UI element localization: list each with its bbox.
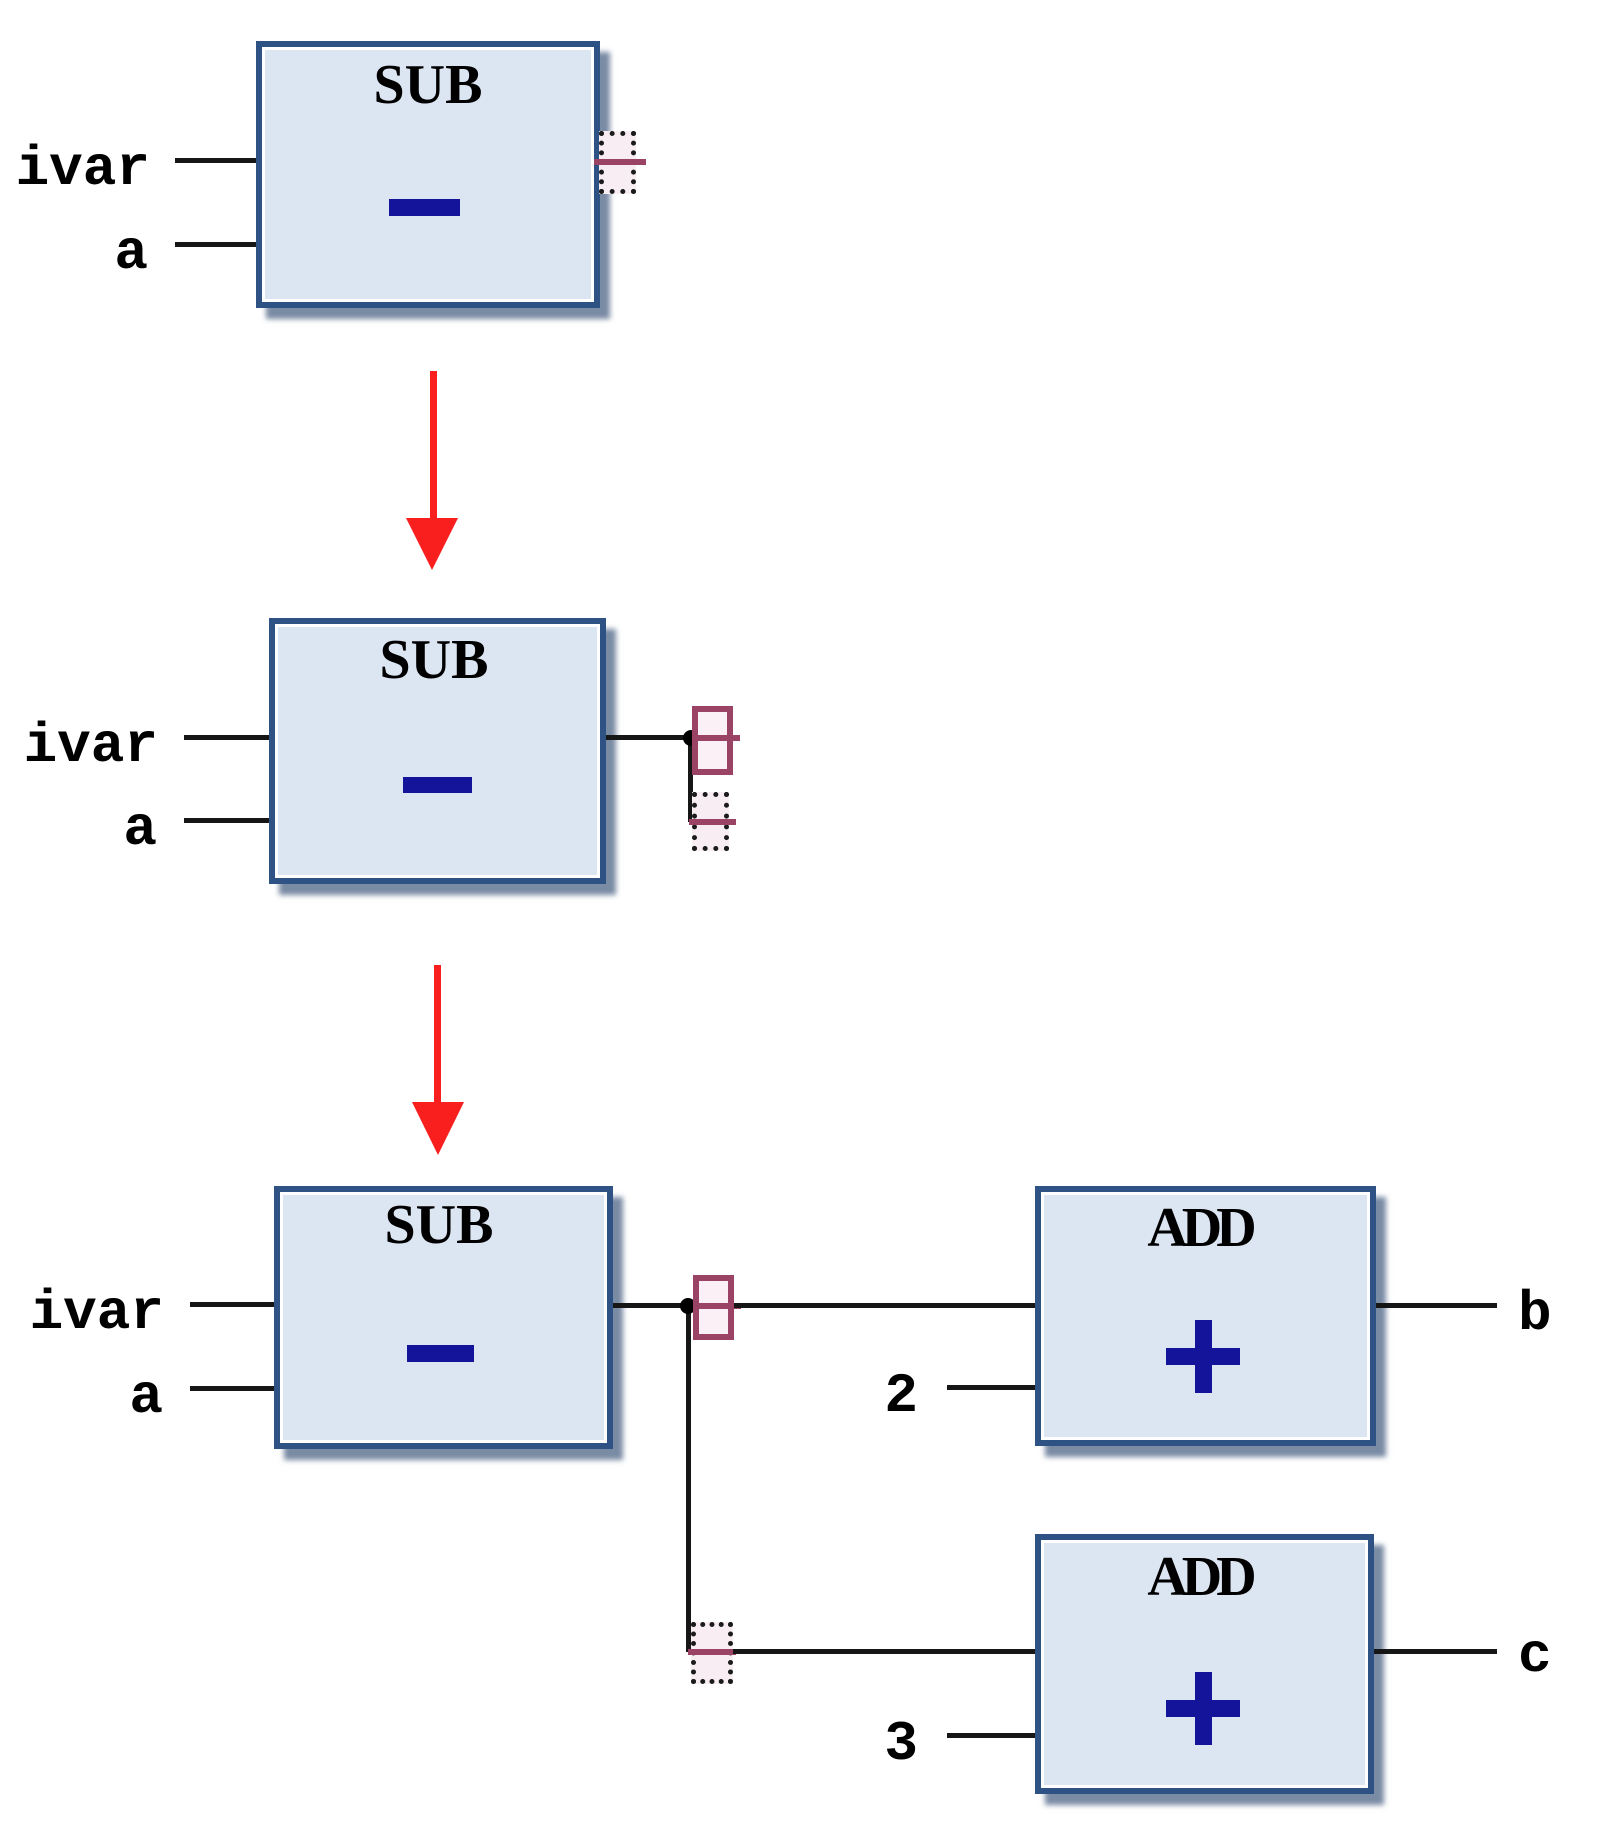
wire ADD2 output to c [1374,1649,1497,1654]
wire ADD1 output to b [1376,1303,1497,1308]
label c (ADD2 output) [1518,1628,1552,1684]
function block ADD2 [1035,1534,1374,1794]
red arrow 1 head [406,518,458,570]
minus operator SUB2 [403,777,472,793]
plus operator ADD1 vertical [1195,1320,1212,1393]
wire SUB2 output vertical branch [688,738,693,822]
assignment marker SUB3 (solid) [693,1275,734,1340]
wire 3 to ADD2 [947,1733,1035,1738]
divider line solid marker SUB3 [693,1303,741,1309]
title SUB1 [328,57,528,113]
next connection marker SUB2 (dashed) [692,792,729,851]
function block SUB1 [256,41,600,308]
wire a to SUB2 [184,818,269,823]
red arrow 2 shaft [434,965,441,1102]
label 2 (ADD1 input 2) [768,1368,918,1424]
plus operator ADD1 horizontal [1166,1348,1240,1365]
plus operator ADD2 horizontal [1166,1700,1240,1717]
label ivar (SUB3 input 1) [0,1285,164,1341]
function block SUB3 [274,1186,613,1449]
plus operator ADD2 vertical [1195,1672,1212,1745]
output connection marker SUB1 (dashed) [599,131,636,194]
junction node SUB3 output [680,1298,696,1314]
function block ADD1 [1035,1186,1376,1446]
label a (SUB1 input 2) [0,225,148,281]
divider line dashed marker SUB2 [689,819,736,825]
divider line solid marker SUB2 [692,735,740,741]
wire ivar to SUB1 [175,158,258,163]
title SUB3 [339,1197,539,1253]
branch connection marker SUB3 (dashed) [691,1622,733,1684]
label b (ADD1 output) [1518,1286,1552,1342]
assignment marker SUB2 (solid) [692,706,733,775]
junction node SUB2 output [683,730,699,746]
label a (SUB3 input 2) [0,1369,163,1425]
minus operator SUB1 [389,199,460,216]
wire SUB3 output [613,1303,688,1308]
minus operator SUB3 [407,1345,474,1362]
label ivar (SUB2 input 1) [0,718,158,774]
red arrow 1 shaft [430,371,437,519]
wire 2 to ADD1 [947,1385,1035,1390]
title SUB2 [334,632,534,688]
divider line dashed marker SUB3 [688,1649,736,1655]
wire SUB3 output vertical branch [686,1306,691,1652]
wire ivar to SUB2 [184,735,269,740]
label a (SUB2 input 2) [0,801,157,857]
wire a to SUB3 [190,1386,274,1391]
wire ivar to SUB3 [190,1302,274,1307]
label ivar (SUB1 input 1) [0,141,150,197]
output stub line SUB1 [594,159,646,165]
wire a to SUB1 [175,242,258,247]
wire SUB2 output [606,735,691,740]
title ADD2 [1099,1549,1299,1605]
wire SUB3 to ADD1 [734,1303,1035,1308]
wire SUB3 branch to ADD2 [733,1649,1035,1654]
function block SUB2 [269,618,606,884]
title ADD1 [1099,1200,1299,1256]
label 3 (ADD2 input 2) [768,1716,918,1772]
red arrow 2 head [412,1102,464,1155]
